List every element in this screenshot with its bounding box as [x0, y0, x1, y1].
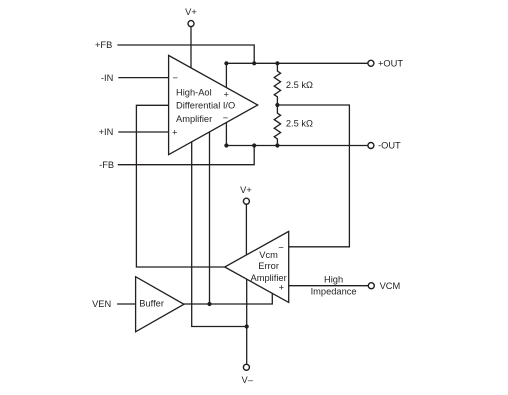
svg-text:+: + [172, 128, 177, 138]
svg-text:+IN: +IN [99, 127, 114, 137]
junction dot -OUT at output rail [224, 143, 228, 147]
pin marker U2 inverting input [278, 242, 283, 252]
svg-text:+: + [279, 283, 284, 293]
wire V- supply to U1 [192, 142, 247, 327]
wire V+ lead into U1 top edge [190, 26, 192, 68]
terminal V- bottom [243, 364, 249, 370]
label +FB [95, 40, 112, 50]
label V- bottom [242, 375, 254, 385]
svg-text:2.5 kΩ: 2.5 kΩ [286, 80, 313, 90]
svg-text:VEN: VEN [92, 299, 111, 309]
wire VEN input [117, 303, 136, 305]
terminal V+ middle [243, 198, 249, 204]
svg-text:-FB: -FB [99, 160, 114, 170]
wire V- terminal lead [246, 327, 248, 365]
svg-text:-IN: -IN [101, 73, 113, 83]
terminal -OUT [368, 143, 374, 149]
label VCM [380, 281, 401, 291]
label U2 name Vcm Error Amplifier [251, 250, 287, 283]
wire +OUT line [226, 62, 368, 64]
label -FB [99, 160, 114, 170]
label +OUT [378, 58, 403, 68]
svg-text:High: High [324, 275, 343, 285]
svg-text:Differential I/O: Differential I/O [176, 101, 235, 111]
wire +FB horizontal to feedback rail [117, 45, 254, 63]
junction dot +OUT at +FB rail [252, 61, 256, 65]
pin marker U2 non-inverting input [279, 283, 284, 293]
label U1 name High-Aol Differential I/O Amplifier [176, 88, 235, 124]
wire V- supply to Vcm error amp [246, 279, 248, 326]
label R1 value 2.5 kOhm [286, 80, 313, 90]
junction dot buffer output [207, 302, 211, 306]
terminal +OUT [368, 60, 374, 66]
resistor R1 2.5 kOhm [274, 63, 280, 105]
svg-text:V–: V– [242, 375, 254, 385]
svg-text:2.5 kΩ: 2.5 kΩ [286, 119, 313, 129]
svg-text:Buffer: Buffer [139, 299, 164, 309]
junction dot +OUT at R1 [275, 61, 279, 65]
svg-text:+FB: +FB [95, 40, 112, 50]
label V+ top [185, 7, 197, 17]
wire +IN input [118, 131, 168, 133]
wire Vcm amp non-inverting input to VCM terminal [289, 285, 369, 287]
svg-text:-OUT: -OUT [378, 141, 401, 151]
label U3 name Buffer [139, 299, 164, 309]
label -IN [101, 73, 113, 83]
junction dot +OUT at output rail [224, 61, 228, 65]
svg-text:VCM: VCM [380, 281, 401, 291]
wire V+ lead into Vcm error amp top edge [245, 204, 247, 255]
junction dot -OUT at -FB rail [252, 143, 256, 147]
svg-text:V+: V+ [240, 185, 252, 195]
svg-text:+OUT: +OUT [378, 58, 403, 68]
label -OUT [378, 141, 401, 151]
svg-text:Vcm: Vcm [259, 250, 278, 260]
pin marker U1 non-inverting input [172, 128, 177, 138]
junction dot V- node [245, 324, 249, 328]
svg-text:−: − [223, 113, 228, 123]
wire -FB horizontal to feedback rail [118, 146, 254, 165]
svg-text:Amplifier: Amplifier [176, 114, 212, 124]
label High Impedance [311, 275, 357, 297]
wire buffer enable to U1 bottom edge [209, 132, 211, 304]
svg-text:Error: Error [258, 261, 279, 271]
wire U1 - output segment [225, 123, 227, 146]
svg-text:+: + [224, 90, 229, 100]
op-amp U1 High-Aol Differential I/O Amplifier [169, 55, 258, 154]
resistor R2 2.5 kOhm [274, 105, 280, 146]
label VEN [92, 299, 111, 309]
wire -IN input [118, 77, 168, 79]
wire U1 + output segment [225, 63, 227, 87]
svg-text:−: − [173, 73, 178, 83]
pin marker U1 - output [223, 113, 228, 123]
junction dot -OUT at R2 [275, 143, 279, 147]
pin marker U1 + output [224, 90, 229, 100]
svg-text:High-Aol: High-Aol [176, 88, 212, 98]
wire -OUT line [226, 145, 368, 147]
terminal VCM [368, 283, 374, 289]
wire Vocm control from Vcm amp output to U1 mid input [136, 105, 224, 267]
label R2 value 2.5 kOhm [286, 119, 313, 129]
buffer U3 [136, 277, 184, 332]
wire resistor midpoint to Vcm error amp inverting input [277, 105, 349, 247]
op-amp U2 Vcm Error Amplifier [225, 231, 289, 302]
svg-text:V+: V+ [185, 7, 197, 17]
svg-text:Impedance: Impedance [311, 287, 357, 297]
terminal V+ top [188, 21, 194, 27]
wire buffer output [184, 293, 272, 304]
label V+ middle [240, 185, 252, 195]
svg-text:−: − [278, 242, 283, 252]
svg-text:Amplifier: Amplifier [251, 273, 287, 283]
label +IN [99, 127, 114, 137]
pin marker U1 inverting input [173, 73, 178, 83]
junction dot resistor midpoint [275, 103, 279, 107]
